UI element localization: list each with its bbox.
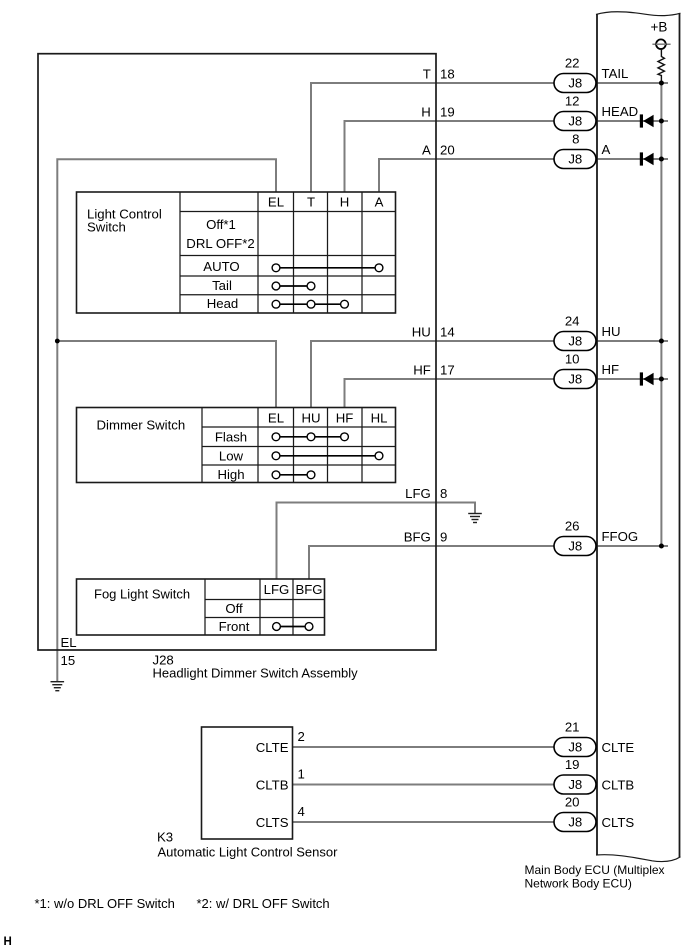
ground for EL pin 15 [51, 681, 65, 683]
svg-text:A: A [422, 142, 431, 157]
connector J8 pin 24 (HU) [554, 332, 596, 351]
svg-text:HU: HU [602, 324, 621, 339]
wire H: light control H to ECU HEAD [345, 121, 669, 192]
svg-text:AUTO: AUTO [203, 259, 239, 274]
connector J8 pin 12 (HEAD) [554, 112, 596, 131]
svg-text:CLTS: CLTS [602, 815, 635, 830]
node EL junction [55, 339, 60, 344]
Main Body ECU bus right line [679, 14, 681, 858]
svg-text:J8: J8 [568, 739, 582, 754]
svg-text:CLTB: CLTB [602, 777, 635, 792]
J28 Headlight Dimmer Switch Assembly box [38, 54, 436, 650]
light control switch table [77, 192, 396, 313]
+B terminal circle [652, 43, 670, 45]
svg-text:10: 10 [565, 352, 580, 367]
svg-text:9: 9 [440, 529, 447, 544]
svg-text:TAIL: TAIL [602, 66, 629, 81]
wire CLTE [293, 746, 598, 748]
svg-text:DRL OFF*2: DRL OFF*2 [186, 236, 254, 251]
svg-text:H: H [340, 195, 350, 210]
svg-text:19: 19 [440, 104, 455, 119]
svg-text:LFG: LFG [405, 486, 431, 501]
svg-text:HEAD: HEAD [602, 104, 639, 119]
svg-text:Main Body ECU (Multiplex: Main Body ECU (Multiplex [525, 863, 665, 877]
Main Body ECU bus left line [596, 14, 598, 855]
dimmer Low contacts [276, 455, 379, 457]
diode HEAD [640, 114, 643, 127]
svg-text:20: 20 [565, 795, 580, 810]
svg-text:8: 8 [440, 486, 447, 501]
wire LFG: fog switch LFG to ground [277, 503, 476, 580]
svg-text:H: H [4, 936, 12, 948]
svg-text:HU: HU [412, 324, 431, 339]
dimmer switch table [77, 408, 396, 483]
svg-text:Tail: Tail [212, 278, 232, 293]
svg-text:High: High [217, 467, 244, 482]
svg-text:HU: HU [301, 411, 320, 426]
wire internal bus vertical [660, 83, 662, 546]
wire CLTB [293, 784, 598, 786]
svg-text:*2: w/ DRL OFF Switch: *2: w/ DRL OFF Switch [197, 896, 330, 911]
svg-text:J8: J8 [568, 777, 582, 792]
svg-text:J8: J8 [568, 371, 582, 386]
svg-text:Off*1: Off*1 [206, 217, 236, 232]
connector J8 pin 10 (HF) [554, 370, 596, 389]
ground for LFG [468, 513, 482, 515]
fog light switch table [77, 579, 325, 635]
svg-text:22: 22 [565, 56, 580, 71]
svg-text:T: T [423, 66, 431, 81]
diode HF [640, 372, 643, 385]
svg-text:J8: J8 [568, 75, 582, 90]
svg-text:2: 2 [298, 729, 305, 744]
svg-text:21: 21 [565, 720, 580, 735]
light control Tail contacts [276, 285, 311, 287]
svg-text:24: 24 [565, 314, 580, 329]
svg-text:Low: Low [219, 448, 244, 463]
svg-text:CLTE: CLTE [602, 740, 635, 755]
svg-text:EL: EL [61, 635, 77, 650]
svg-text:J8: J8 [568, 538, 582, 553]
svg-text:LFG: LFG [264, 582, 290, 597]
wire HF: dimmer HF to ECU HF [345, 379, 669, 408]
svg-text:J8: J8 [568, 333, 582, 348]
svg-text:EL: EL [268, 195, 284, 210]
svg-text:26: 26 [565, 519, 580, 534]
svg-text:Head: Head [207, 296, 239, 311]
svg-text:19: 19 [565, 757, 580, 772]
svg-text:Automatic Light Control Sensor: Automatic Light Control Sensor [158, 845, 339, 860]
fog Front contacts [277, 626, 310, 628]
svg-text:EL: EL [268, 411, 284, 426]
svg-text:17: 17 [440, 362, 455, 377]
svg-text:Front: Front [219, 619, 250, 634]
wire HU: dimmer HU to ECU HU [311, 341, 668, 408]
svg-text:HL: HL [371, 411, 388, 426]
connector J8 pin 21 (CLTE) [554, 738, 596, 757]
svg-text:Switch: Switch [87, 220, 126, 235]
svg-text:FFOG: FFOG [602, 529, 639, 544]
diode A [640, 152, 643, 165]
svg-text:14: 14 [440, 324, 455, 339]
K3 Automatic Light Control Sensor box [202, 727, 293, 839]
svg-text:A: A [602, 142, 611, 157]
svg-text:CLTB: CLTB [256, 777, 289, 792]
wire EL net: light control EL up, left, down to ground [57, 159, 276, 681]
svg-text:Dimmer Switch: Dimmer Switch [97, 418, 186, 433]
svg-text:18: 18 [440, 66, 455, 81]
wire T: light control T to ECU TAIL [311, 83, 668, 192]
svg-text:Flash: Flash [215, 429, 247, 444]
svg-text:K3: K3 [157, 830, 173, 845]
light control Head contacts [276, 303, 345, 305]
svg-text:Off: Off [225, 601, 243, 616]
svg-text:20: 20 [440, 142, 455, 157]
svg-text:12: 12 [565, 94, 580, 109]
wire A: light control A to ECU A [379, 159, 668, 192]
svg-text:T: T [307, 195, 315, 210]
svg-text:8: 8 [572, 132, 579, 147]
bus top break wave [596, 12, 681, 16]
wire CLTS [293, 821, 598, 823]
svg-text:1: 1 [298, 767, 305, 782]
svg-text:BFG: BFG [404, 529, 431, 544]
svg-text:CLTE: CLTE [256, 740, 289, 755]
connector J8 pin 19 (CLTB) [554, 775, 596, 794]
wire BFG: fog switch BFG to ECU FFOG [309, 546, 668, 579]
connector J8 pin 22 (TAIL) [554, 74, 596, 93]
svg-text:J8: J8 [568, 113, 582, 128]
resistor (ECU pull-up) [658, 49, 664, 83]
svg-text:*1: w/o DRL OFF Switch: *1: w/o DRL OFF Switch [35, 896, 175, 911]
svg-text:Fog Light Switch: Fog Light Switch [94, 587, 190, 602]
dimmer Flash contacts [276, 436, 345, 438]
connector J8 pin 20 (CLTS) [554, 813, 596, 832]
svg-text:4: 4 [298, 804, 305, 819]
connector J8 pin 8 (A) [554, 150, 596, 169]
svg-text:CLTS: CLTS [256, 815, 289, 830]
svg-text:H: H [421, 104, 431, 119]
junction dots on internal bus [659, 81, 664, 86]
connector J8 pin 26 (FFOG) [554, 537, 596, 556]
svg-text:Headlight Dimmer Switch Assemb: Headlight Dimmer Switch Assembly [153, 666, 359, 681]
svg-text:HF: HF [336, 411, 354, 426]
bus bottom break wave [596, 855, 681, 862]
svg-text:+B: +B [651, 20, 668, 35]
svg-text:A: A [375, 195, 384, 210]
svg-text:15: 15 [61, 653, 76, 668]
svg-text:J8: J8 [568, 814, 582, 829]
light control AUTO contacts [276, 267, 379, 269]
wire EL branch to dimmer switch EL [57, 341, 276, 408]
svg-text:Network Body ECU): Network Body ECU) [525, 876, 632, 890]
svg-text:HF: HF [602, 362, 620, 377]
svg-text:J8: J8 [568, 151, 582, 166]
svg-text:BFG: BFG [295, 582, 322, 597]
dimmer High contacts [276, 474, 311, 476]
svg-text:HF: HF [413, 362, 431, 377]
